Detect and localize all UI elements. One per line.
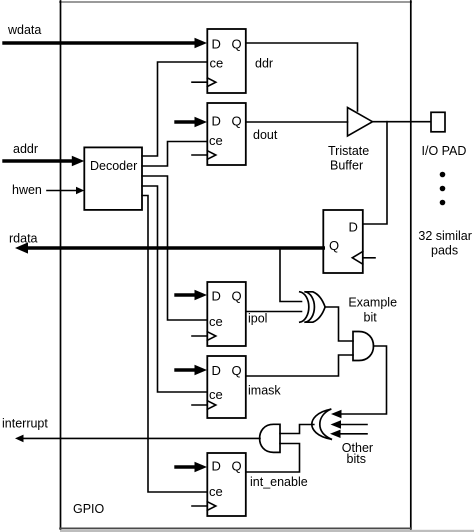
- flip-flop ipol: [207, 282, 246, 346]
- and gate example bit: [353, 332, 374, 361]
- wire hwen: [47, 187, 84, 195]
- flip-flop sync: [323, 210, 363, 273]
- svg-text:Q: Q: [232, 288, 242, 303]
- svg-text:ce: ce: [210, 55, 224, 70]
- label 32 similar pads: [418, 229, 472, 258]
- label Example bit: [348, 296, 397, 325]
- wire clock sync: [363, 257, 375, 259]
- wire clock ddr: [192, 81, 207, 83]
- wire wdata tap ipol D: [176, 290, 207, 301]
- wire ce ddr: [142, 62, 207, 156]
- wire ce ipol: [142, 176, 207, 320]
- wire rdata bus: [15, 242, 323, 253]
- svg-text:ipol: ipol: [248, 312, 267, 326]
- svg-text:ce: ce: [209, 314, 223, 329]
- wire imask Q to and: [246, 355, 353, 376]
- svg-text:pads: pads: [431, 244, 458, 258]
- wire xor out to and: [325, 307, 353, 341]
- svg-text:ce: ce: [209, 387, 223, 402]
- svg-text:D: D: [212, 36, 221, 51]
- tristate buffer: [328, 108, 373, 173]
- wire other bit stub middle: [331, 420, 368, 428]
- svg-text:ce: ce: [209, 133, 223, 148]
- svg-text:Q: Q: [232, 363, 242, 378]
- flip-flop ddr: [207, 29, 246, 93]
- wire wdata bus: [4, 38, 207, 49]
- svg-text:D: D: [349, 220, 358, 235]
- wire clock int_enable: [192, 505, 207, 507]
- svg-text:bit: bit: [364, 311, 378, 325]
- svg-text:bits: bits: [347, 452, 366, 466]
- ellipsis dot 3: [440, 200, 446, 206]
- GPIO enclosure left border: [60, 1, 62, 529]
- wire rdata tap to xor: [280, 248, 302, 302]
- wire tristate output to pad: [373, 121, 431, 123]
- svg-text:dout: dout: [253, 128, 278, 142]
- wire wdata tap imask D: [176, 365, 207, 376]
- svg-text:Decoder: Decoder: [90, 159, 137, 173]
- svg-text:Tristate: Tristate: [328, 144, 369, 158]
- window shadow band bottom: [60, 530, 474, 532]
- svg-text:addr: addr: [13, 142, 38, 156]
- svg-text:ce: ce: [209, 484, 223, 499]
- svg-text:Buffer: Buffer: [330, 159, 363, 173]
- and gate interrupt: [260, 424, 280, 452]
- wire ce dout: [142, 142, 207, 167]
- svg-text:int_enable: int_enable: [250, 475, 308, 489]
- svg-text:interrupt: interrupt: [2, 417, 48, 431]
- or gate other bits: [312, 409, 331, 439]
- svg-text:D: D: [212, 114, 221, 129]
- wire clock dout: [192, 154, 207, 156]
- wire or out to interrupt and: [280, 425, 314, 434]
- svg-text:D: D: [212, 288, 221, 303]
- svg-text:ddr: ddr: [255, 57, 273, 71]
- svg-text:wdata: wdata: [7, 23, 41, 37]
- wire other bit stub bottom: [330, 430, 367, 438]
- svg-text:I/O PAD: I/O PAD: [422, 144, 467, 158]
- svg-text:Q: Q: [232, 36, 242, 51]
- wire dout Q to tristate input: [246, 121, 348, 123]
- xor gate: [300, 292, 325, 322]
- decoder U1: [84, 147, 142, 210]
- GPIO enclosure top border: [60, 1, 411, 3]
- wire clock imask: [192, 404, 207, 406]
- wire ipol Q to xor: [246, 311, 302, 313]
- svg-text:D: D: [212, 459, 221, 474]
- wire ce imask: [142, 186, 207, 392]
- wire clock ipol: [192, 335, 207, 337]
- flip-flop imask: [207, 356, 246, 418]
- flip-flop int_enable: [207, 453, 246, 516]
- svg-text:hwen: hwen: [12, 183, 42, 197]
- svg-text:Example: Example: [348, 296, 397, 310]
- svg-text:32 similar: 32 similar: [418, 229, 472, 243]
- io pad: [422, 112, 467, 158]
- wire wdata tap int_enable D: [176, 462, 207, 473]
- wire pad feedback to sync D: [363, 122, 387, 224]
- flip-flop dout: [207, 103, 246, 165]
- wire ce int_enable: [142, 196, 207, 493]
- svg-text:GPIO: GPIO: [73, 502, 105, 516]
- svg-text:imask: imask: [248, 384, 281, 398]
- ellipsis dot 2: [440, 186, 446, 192]
- svg-text:D: D: [212, 363, 221, 378]
- svg-text:rdata: rdata: [9, 232, 38, 246]
- GPIO enclosure bottom border: [60, 527, 411, 529]
- svg-text:Q: Q: [232, 114, 242, 129]
- wire and out to or input: [331, 346, 387, 418]
- wire ddr Q to tristate enable: [246, 43, 358, 111]
- GPIO enclosure right border: [410, 1, 412, 529]
- wire int_enable Q to interrupt and: [246, 444, 300, 473]
- wire addr bus: [4, 156, 84, 167]
- wire interrupt: [15, 435, 260, 443]
- wire wdata tap dout D: [176, 117, 207, 128]
- ellipsis dot 1: [440, 172, 446, 178]
- svg-text:Q: Q: [329, 238, 339, 253]
- label Other bits: [342, 441, 373, 466]
- svg-text:Q: Q: [232, 459, 242, 474]
